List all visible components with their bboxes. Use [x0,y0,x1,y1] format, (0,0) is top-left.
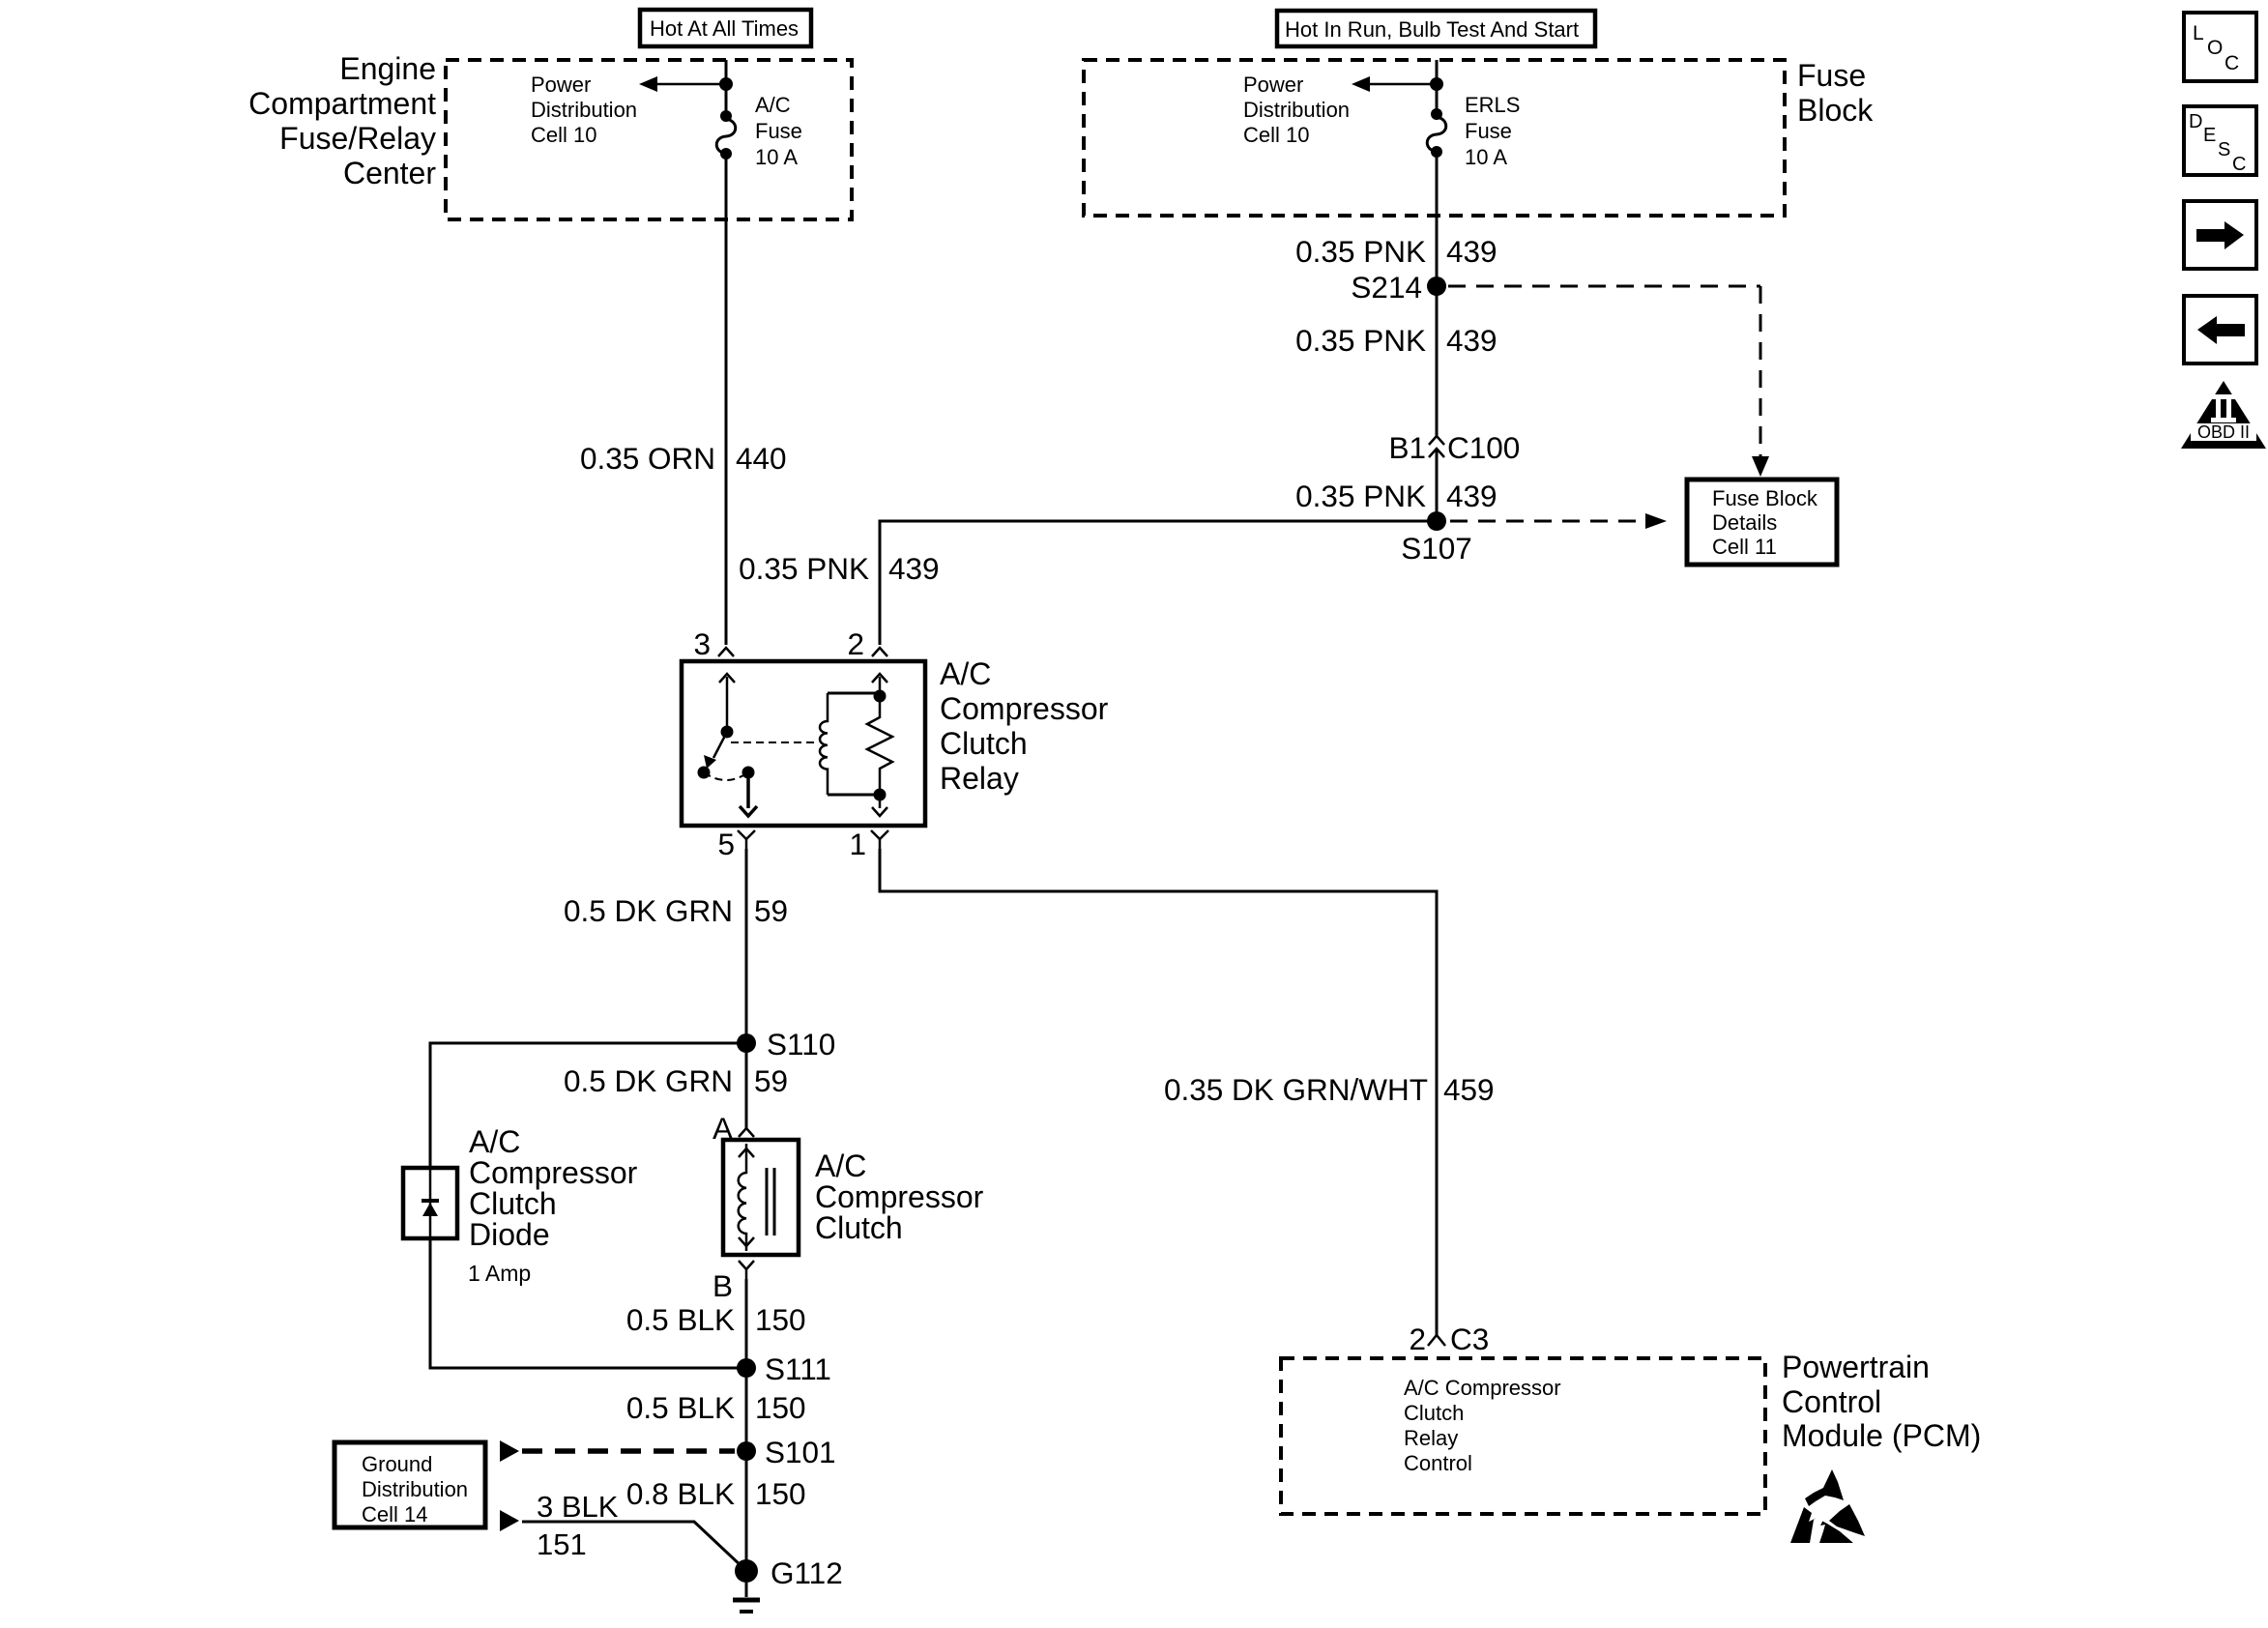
svg-text:5: 5 [717,827,735,861]
dashed reference from S214 to Fuse Block Details box [1448,286,1769,477]
PCM dashed box [1281,1358,1765,1514]
svg-text:OBD II: OBD II [2197,422,2250,442]
relay switch dashed travel arc [704,772,748,780]
LOC icon [2184,13,2256,81]
label Powertrain Control Module (PCM) [1782,1350,1981,1453]
svg-text:0.5 BLK: 0.5 BLK [626,1302,735,1337]
pin A connector chevron [739,1128,754,1137]
svg-text:B1: B1 [1388,430,1426,465]
label 0.5 DK GRN 59 (first) [564,893,788,928]
label Fuse Block [1797,58,1874,128]
wire pin 5 to S110 [745,849,748,1043]
svg-text:0.5 DK GRN: 0.5 DK GRN [564,893,733,928]
svg-text:2: 2 [1409,1322,1426,1356]
fuse A/C Fuse 10 A [716,84,736,160]
svg-text:Clutch: Clutch [815,1210,903,1245]
svg-text:0.35 PNK: 0.35 PNK [1295,479,1426,513]
relay pin 2 connector chevron [872,648,887,656]
wire from Hot At All Times title into box [725,60,728,112]
label 0.8 BLK 150 [626,1476,806,1511]
svg-text:A/C: A/C [940,656,991,691]
svg-text:Distribution: Distribution [531,98,637,122]
label 0.35 PNK 439 (pin 2) [739,551,939,586]
splice S110 [737,1033,756,1053]
svg-text:Fuse Block: Fuse Block [1712,486,1818,510]
svg-text:Cell 14: Cell 14 [362,1502,427,1526]
splice S111 [737,1358,756,1378]
svg-text:Cell 10: Cell 10 [1243,123,1309,147]
node junction dot at A/C fuse top feed [719,77,733,91]
clutch internal arrow and coil [739,1144,754,1251]
relay switch arm [698,732,728,779]
svg-text:Details: Details [1712,510,1777,535]
svg-text:Block: Block [1797,93,1874,128]
svg-text:A/C: A/C [755,93,791,117]
labels B1 and C100 [1388,430,1520,465]
svg-text:150: 150 [755,1302,806,1337]
diode symbol [422,1168,439,1238]
svg-text:439: 439 [888,551,940,586]
wire S110 down to pin A [745,1053,748,1128]
label 0.5 BLK 150 (second) [626,1390,806,1425]
svg-text:A/C: A/C [815,1148,866,1183]
svg-text:Compressor: Compressor [940,691,1109,726]
ESD sensitivity symbol [1790,1469,1865,1543]
wire from title into fuse block [1436,60,1439,110]
wire 3 BLK 151 branch [500,1510,742,1567]
svg-text:S: S [2218,139,2230,160]
splice S107 [1427,511,1446,531]
svg-text:S110: S110 [767,1027,835,1061]
svg-text:59: 59 [754,893,788,928]
power distribution arrow (right box) [1352,76,1437,92]
relay fixed contact arrow (pin 3) [719,674,735,739]
clutch core bars [767,1168,774,1236]
Ground Distribution Cell 14 box [334,1442,485,1527]
wire C100 to S107 [1436,449,1439,521]
svg-text:Power: Power [1243,73,1303,97]
label 0.5 DK GRN 59 (second) [564,1063,788,1098]
label 0.35 ORN 440 [580,441,787,476]
power distribution arrow (left box) [639,76,726,92]
svg-text:440: 440 [736,441,787,476]
label 0.35 DK GRN/WHT 459 [1164,1072,1495,1107]
svg-text:10 A: 10 A [755,145,798,169]
label Power Distribution Cell 10 (left) [531,73,637,147]
svg-text:439: 439 [1446,323,1497,358]
svg-text:3 BLK: 3 BLK [537,1490,619,1524]
svg-text:Fuse: Fuse [1465,119,1512,143]
svg-text:Fuse/Relay: Fuse/Relay [279,121,436,156]
relay pin 2 internal arrow [872,674,887,696]
svg-text:L: L [2193,22,2204,44]
svg-text:S101: S101 [765,1435,836,1469]
svg-text:0.5 DK GRN: 0.5 DK GRN [564,1063,733,1098]
label 0.35 PNK 439 (second) [1295,323,1497,358]
pin B connector Y [739,1261,754,1279]
label A/C Compressor Clutch Diode [469,1124,638,1252]
svg-text:Hot At All Times: Hot At All Times [650,16,799,41]
title box Hot In Run, Bulb Test And Start [1277,11,1595,46]
label A/C Compressor Clutch [815,1148,984,1245]
svg-text:Module (PCM): Module (PCM) [1782,1418,1981,1453]
relay resistor [867,690,892,801]
label A/C Compressor Clutch Relay Control [1404,1376,1561,1475]
label 0.35 PNK 439 (first) [1295,234,1497,269]
relay pin 1 internal arrow [872,795,887,816]
relay pin 5 connector Y [738,830,755,849]
OBD II icon [2181,381,2266,449]
svg-text:A/C Compressor: A/C Compressor [1404,1376,1561,1400]
label Engine Compartment Fuse/Relay Center [248,51,436,190]
wire S110 branch left to diode [430,1043,746,1168]
svg-text:Power: Power [531,73,591,97]
svg-text:Hot In Run, Bulb Test And Star: Hot In Run, Bulb Test And Start [1285,17,1579,42]
svg-text:59: 59 [754,1063,788,1098]
wire 0.35 PNK 439 fuse to S214 [1436,152,1439,281]
svg-text:Distribution: Distribution [1243,98,1350,122]
svg-text:Control: Control [1782,1384,1881,1419]
dashed arrow S107 to Fuse Block Details box [1450,513,1667,529]
fuse block dashed box [1084,60,1785,216]
wire S111 to S101 [745,1378,748,1451]
left arrow icon [2184,296,2256,363]
title box Hot At All Times [640,10,811,46]
svg-text:Clutch: Clutch [469,1186,557,1221]
svg-text:0.8 BLK: 0.8 BLK [626,1476,735,1511]
svg-text:Relay: Relay [940,761,1019,796]
svg-text:E: E [2203,125,2216,146]
svg-text:1 Amp: 1 Amp [468,1261,531,1286]
wire 0.35 ORN 440 from fuse to relay pin 3 [725,154,728,645]
splice S214 [1427,276,1446,296]
svg-text:Relay: Relay [1404,1426,1458,1450]
svg-text:439: 439 [1446,479,1497,513]
label Power Distribution Cell 10 (right) [1243,73,1350,147]
label 0.5 BLK 150 (first) [626,1302,806,1337]
diode D1 box [403,1168,457,1238]
wire S107 left then down to relay pin 2 [880,521,1437,645]
svg-text:Fuse: Fuse [755,119,802,143]
DESC icon [2184,106,2256,175]
svg-text:459: 459 [1443,1072,1495,1107]
svg-text:0.35 DK GRN/WHT: 0.35 DK GRN/WHT [1164,1072,1428,1107]
svg-text:Powertrain: Powertrain [1782,1350,1930,1384]
svg-text:Compressor: Compressor [469,1155,638,1190]
wire relay pin 1 to PCM pin 2 [880,849,1437,1335]
svg-text:A/C: A/C [469,1124,520,1159]
label 3 BLK over 151 [537,1490,619,1561]
svg-text:Fuse: Fuse [1797,58,1866,93]
svg-text:C100: C100 [1447,430,1520,465]
label 0.35 PNK 439 (third) [1295,479,1497,513]
svg-text:150: 150 [755,1476,806,1511]
svg-text:2: 2 [847,626,864,661]
svg-text:0.35 ORN: 0.35 ORN [580,441,715,476]
right arrow icon [2184,201,2256,269]
svg-text:C3: C3 [1450,1322,1489,1356]
connector B1 C100 (double chevron) [1429,436,1444,457]
svg-text:C: C [2224,52,2239,74]
svg-text:D: D [2189,111,2202,132]
splice S101 [737,1441,756,1461]
svg-text:S111: S111 [765,1352,831,1386]
svg-text:Clutch: Clutch [940,726,1028,761]
svg-text:Compressor: Compressor [815,1179,984,1214]
svg-text:150: 150 [755,1390,806,1425]
svg-text:Diode: Diode [469,1217,550,1252]
svg-text:Center: Center [343,156,436,190]
svg-text:Control: Control [1404,1451,1472,1475]
diode return wire down to S111 [430,1238,746,1368]
svg-text:0.35 PNK: 0.35 PNK [1295,234,1426,269]
svg-text:S107: S107 [1401,531,1472,566]
ground G112 [733,1559,760,1612]
svg-text:10 A: 10 A [1465,145,1507,169]
relay common contact arrow (pin 5) [740,767,757,817]
svg-text:0.5 BLK: 0.5 BLK [626,1390,735,1425]
svg-text:B: B [712,1268,733,1303]
node junction dot at ERLS fuse top feed [1430,77,1443,91]
svg-text:ERLS: ERLS [1465,93,1520,117]
engine compartment fuse/relay center dashed box [446,60,852,219]
relay pin 3 connector chevron [718,648,734,656]
svg-text:Compartment: Compartment [248,86,436,121]
svg-text:Cell 11: Cell 11 [1712,535,1777,559]
svg-text:G112: G112 [771,1555,843,1590]
svg-text:Ground: Ground [362,1452,432,1476]
relay U1 A/C Compressor Clutch Relay box [682,661,925,826]
svg-text:Cell 10: Cell 10 [531,123,596,147]
label A/C Compressor Clutch Relay [940,656,1109,796]
fuse ERLS Fuse 10 A [1427,84,1446,158]
svg-text:0.35 PNK: 0.35 PNK [739,551,869,586]
label A/C Fuse 10 A [755,93,802,169]
svg-text:151: 151 [537,1527,587,1561]
PCM pin connector (inverted Y) [1428,1335,1445,1346]
svg-text:3: 3 [693,626,711,661]
label ERLS Fuse 10 A [1465,93,1520,169]
svg-text:Distribution: Distribution [362,1477,468,1501]
svg-text:C: C [2232,154,2246,175]
A/C Compressor Clutch M1 box [723,1140,799,1255]
svg-text:0.35 PNK: 0.35 PNK [1295,323,1426,358]
relay pin 1 connector Y [871,830,888,849]
svg-text:1: 1 [849,827,866,861]
relay actuation dashed link [731,741,816,743]
Fuse Block Details Cell 11 box [1687,480,1837,565]
svg-text:S214: S214 [1351,270,1422,305]
wire pin B to S111 [745,1279,748,1368]
svg-text:O: O [2207,37,2223,59]
svg-text:Engine: Engine [339,51,436,86]
dashed reference arrow to S101 [500,1440,735,1462]
wire S214 to connector C100 [1436,286,1439,436]
wire S101 to G112 [745,1461,748,1566]
svg-text:Clutch: Clutch [1404,1401,1464,1425]
svg-text:439: 439 [1446,234,1497,269]
relay coil [820,693,880,795]
